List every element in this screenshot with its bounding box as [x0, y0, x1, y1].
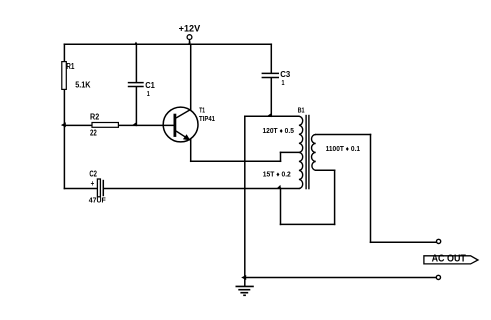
wire: tap lead to primary winding — [281, 151, 299, 153]
transformer B1 secondary winding arcs — [312, 135, 316, 171]
AC OUT output terminal (top) — [437, 239, 441, 243]
wire: emitter lead vertical — [190, 140, 192, 162]
svg-text:120T ♦ 0.5: 120T ♦ 0.5 — [263, 128, 294, 135]
wire: C1 branch lower — [135, 87, 137, 125]
svg-text:47UF: 47UF — [89, 196, 106, 205]
svg-text:R1: R1 — [66, 62, 75, 71]
svg-text:C2: C2 — [89, 169, 97, 178]
wire: transformer primary top lead — [245, 115, 299, 117]
junction at C1 top rail — [134, 42, 138, 45]
svg-text:R2: R2 — [90, 113, 100, 122]
wire: bottom U right vertical — [334, 170, 336, 224]
svg-text:5.1K: 5.1K — [75, 81, 90, 90]
svg-text:+: + — [91, 179, 95, 188]
transistor T1 collector diagonal — [176, 109, 191, 118]
transistor T1 emitter arrowhead — [183, 134, 191, 140]
wire: primary bottom junction down — [280, 189, 282, 225]
wire: R2 left lead — [64, 124, 92, 126]
wire: collector lead of T1 — [190, 44, 192, 110]
wire: C2 row left segment — [64, 188, 97, 190]
wire: C3 branch upper — [270, 44, 272, 73]
wire: +12V top rail — [64, 43, 271, 45]
wire: +12V terminal lead — [189, 40, 191, 45]
capacitor C3 — [262, 73, 279, 77]
transistor T1 circle — [163, 107, 198, 142]
svg-text:TIP41: TIP41 — [199, 116, 215, 123]
AC OUT flag — [424, 256, 478, 264]
wire: secondary top lead — [316, 134, 371, 136]
junction at ground / AC bottom wire — [241, 275, 246, 280]
+12V terminal circle — [187, 35, 192, 40]
resistor R2 — [92, 123, 118, 128]
transformer B1 primary winding arcs — [299, 116, 303, 188]
AC OUT output terminal (bottom) — [436, 275, 440, 279]
wire: AC OUT bottom wire — [245, 277, 436, 279]
capacitor C1 — [128, 83, 144, 87]
wire: ground rail vertical — [244, 116, 246, 286]
svg-text:1100T ♦ 0.1: 1100T ♦ 0.1 — [326, 146, 360, 153]
wire: C2 row right segment to transformer primary bottom — [104, 188, 299, 190]
svg-text:1: 1 — [147, 89, 150, 98]
ground symbol — [236, 286, 254, 295]
wire: left rail lower (R1 to C2 row) — [63, 89, 65, 188]
svg-text:AC OUT: AC OUT — [432, 253, 466, 264]
transistor T1 base bar — [173, 114, 176, 137]
wire: C3 branch lower — [270, 78, 272, 116]
svg-text:T1: T1 — [199, 108, 205, 115]
wire: tap step vertical — [280, 152, 282, 161]
junction at R2 left / left rail — [61, 122, 66, 127]
svg-text:1: 1 — [282, 78, 285, 87]
wire: emitter row to tap step — [191, 160, 281, 162]
transistor T1 emitter diagonal — [176, 131, 191, 140]
capacitor C2 (electrolytic) — [97, 179, 100, 197]
svg-text:B1: B1 — [298, 108, 305, 115]
wire: C1 branch upper — [135, 44, 137, 82]
resistor R1 — [62, 62, 67, 90]
junction at C1 bottom / base row — [132, 122, 137, 126]
svg-text:15T ♦ 0.2: 15T ♦ 0.2 — [263, 171, 291, 178]
junction at primary bottom tap — [276, 185, 281, 189]
wire: R2 to base of T1 — [118, 124, 173, 126]
wire: left rail upper (top rail to R1) — [63, 44, 65, 61]
junction at +12V rail / collector — [187, 41, 191, 45]
transformer B1 core lines — [305, 115, 307, 190]
wire: bottom U horizontal — [281, 223, 335, 225]
junction at C3 / primary top — [266, 113, 271, 117]
wire: secondary output vertical — [370, 135, 372, 243]
svg-text:+12V: +12V — [179, 24, 201, 34]
wire: secondary bottom lead — [316, 169, 335, 171]
wire: AC OUT top wire — [371, 241, 437, 243]
svg-text:22: 22 — [90, 129, 97, 138]
